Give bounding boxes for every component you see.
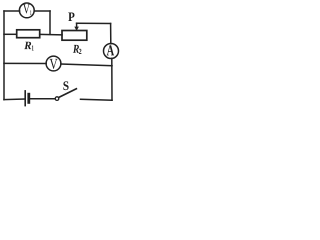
switch contact circle bbox=[55, 97, 59, 101]
label R2 subscript 2 bbox=[79, 49, 82, 54]
label V1 subscript 1 bbox=[30, 10, 32, 15]
wire V1 branch vertical bbox=[49, 11, 51, 34]
voltmeter V1 bbox=[19, 3, 34, 18]
battery long plate bbox=[24, 91, 26, 106]
wire bottom rail left segment bbox=[4, 98, 25, 101]
wire rail between R1 and R2 bbox=[40, 33, 62, 35]
resistor R2 bbox=[62, 31, 87, 41]
wire V rail left segment bbox=[4, 62, 46, 64]
slider arrowhead bbox=[74, 27, 79, 31]
switch blade S bbox=[59, 89, 77, 98]
label V1 letter bbox=[23, 4, 30, 13]
label V (middle voltmeter) bbox=[50, 59, 58, 69]
label R1 letter bbox=[24, 42, 31, 49]
wire top-left horizontal to V1 bbox=[4, 10, 20, 12]
wire slider top horizontal bbox=[77, 22, 111, 24]
slider arrow stem P bbox=[76, 23, 78, 27]
label R2 letter bbox=[73, 45, 79, 53]
wire V1 right bbox=[34, 10, 50, 12]
wire vertical below ammeter to bottom rail bbox=[111, 58, 113, 100]
wire V rail right segment bbox=[61, 64, 112, 66]
wire right top vertical to ammeter bbox=[110, 24, 112, 44]
resistor R1 bbox=[17, 30, 40, 38]
voltmeter V bbox=[46, 56, 61, 71]
wire switch right to corner bbox=[81, 98, 113, 101]
wire battery to switch bbox=[30, 98, 55, 100]
ammeter A bbox=[104, 44, 119, 59]
label R1 subscript 1 bbox=[32, 45, 34, 50]
label S bbox=[63, 81, 68, 90]
label A bbox=[107, 45, 114, 55]
battery short plate bbox=[27, 94, 30, 102]
wire main rail left segment bbox=[4, 33, 17, 35]
label P bbox=[68, 13, 74, 22]
wire left vertical bbox=[3, 11, 5, 100]
